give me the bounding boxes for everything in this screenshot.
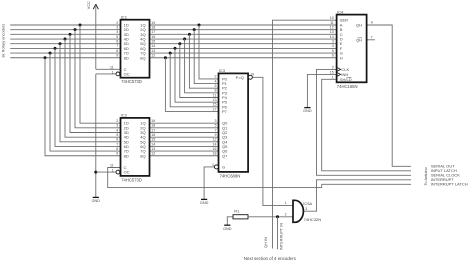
svg-text:13: 13 [151,147,155,151]
wire R1 to IC5A input 2 [248,216,293,218]
svg-text:11: 11 [213,93,217,97]
wire encoder line 3 to IC1 pin 4 (1D..8D) [10,33,120,35]
latch IC1 74HC573D [110,14,155,83]
node junction output line 5 [178,42,181,45]
wire IC4 pin 2 CLK to SERIAL CLOCK rail [317,69,412,175]
wire encoder line 4 drop to IC2 pin 5 [65,39,121,137]
svg-text:GND: GND [223,227,232,231]
wire IC2 output 6Q to IC3 Q5 [150,145,219,147]
svg-text:7: 7 [116,142,118,146]
svg-text:8x Rotary encoders: 8x Rotary encoders [1,24,6,58]
wire IC2 output 8Q to IC3 Q7 [150,155,219,157]
wire drop output 3Q to IC3 P2 [189,34,218,88]
shift register IC4 74HC165N [330,10,373,89]
svg-text:3: 3 [305,207,307,211]
svg-text:14: 14 [213,142,217,146]
svg-text:3: 3 [116,25,118,29]
svg-text:IC1: IC1 [121,14,128,19]
svg-text:G: G [222,164,225,169]
wire IC4 QH-bar (pin 7) stub [367,39,375,41]
wire drop output 8Q to IC3 P7 [165,58,218,112]
wire IC1 pin 1 (OC) to ground rail [96,73,116,75]
wire INTERRUPT IN drop [277,217,279,249]
svg-text:2: 2 [332,65,334,69]
wire IC2 output 5Q to IC3 Q4 [150,141,219,143]
svg-text:1: 1 [332,75,334,79]
svg-text:18: 18 [151,25,155,29]
svg-text:To Arduino: To Arduino [423,167,428,185]
ground GND4 [303,108,312,114]
wire junction to IC2 pin 1 (OC) [96,171,116,173]
latch IC2 74HC573D [110,113,155,183]
svg-text:11: 11 [110,65,114,69]
svg-text:4: 4 [332,44,334,48]
node junction output line 3 [188,33,191,36]
node junction encoder line 1 [79,24,82,27]
svg-text:Next section of 4 encoders: Next section of 4 encoders [244,256,297,261]
svg-text:6: 6 [116,40,118,44]
wire IC2 output 4Q to IC3 Q3 [150,136,219,138]
svg-text:14: 14 [330,35,334,39]
svg-text:8: 8 [116,147,118,151]
wire IC1 output 7Q to IC4 input G [150,52,337,54]
svg-text:8D: 8D [124,153,129,158]
wire IC5A output to INTERRUPT rail [303,180,411,211]
wire encoder line 2 to IC1 pin 3 (1D..8D) [10,29,120,31]
node junction INTERRUPT IN [276,215,279,218]
wire drop output 6Q to IC3 P5 [175,48,219,102]
svg-text:8: 8 [116,49,118,53]
svg-text:2: 2 [116,21,118,25]
wire IC3 P=Q output to IC5A input 1 [252,77,293,205]
wire encoder line 6 drop to IC2 pin 7 [55,48,121,146]
node junction OC rail / IC2 OC [94,171,97,174]
svg-text:12: 12 [151,54,155,58]
wire IC4 SER input from QH IN [273,20,337,248]
svg-text:4: 4 [116,30,118,34]
svg-text:P7: P7 [222,109,228,114]
svg-text:7: 7 [371,35,373,39]
svg-text:74HC165N: 74HC165N [337,84,358,89]
svg-text:17: 17 [151,128,155,132]
svg-text:8Q: 8Q [140,55,145,60]
svg-text:10: 10 [330,16,334,20]
svg-text:VCC: VCC [87,1,91,9]
node junction encoder line 6 [54,47,57,50]
wire encoder line 2 drop to IC2 pin 3 [75,30,121,128]
svg-text:8: 8 [215,89,217,93]
wire IC2 output 3Q to IC3 Q2 [150,132,219,134]
wire IC2 pin 11 (C) to INTERRUPT LATCH rail [108,168,322,188]
wire IC1 output 2Q to IC4 input B [150,29,337,31]
wire IC3 pin 1 (G) to ground [204,167,214,200]
svg-text:R1: R1 [234,208,240,213]
svg-text:74HC32N: 74HC32N [304,217,322,222]
svg-text:3: 3 [215,119,217,123]
wire drop output 4Q to IC3 P3 [185,39,219,93]
node junction output line 7 [169,52,172,55]
svg-text:1: 1 [212,163,214,167]
wire IC1 output 3Q to IC4 input C [150,33,337,35]
svg-text:8Q: 8Q [140,153,145,158]
svg-text:13: 13 [151,49,155,53]
resistor R1 [233,208,248,219]
svg-text:6: 6 [116,138,118,142]
svg-text:74HC688N: 74HC688N [220,174,241,179]
svg-text:7: 7 [116,44,118,48]
svg-text:15: 15 [213,103,217,107]
wire IC1 output 5Q to IC4 input E [150,43,337,45]
power VCC symbol [87,1,98,69]
wire encoder line 8 to IC1 pin 9 (1D..8D) [10,57,120,59]
svg-text:2: 2 [215,75,217,79]
comparator IC3 74HC688N [212,68,254,179]
svg-text:11: 11 [330,21,334,25]
ground GND2 [200,199,209,205]
node junction output line 6 [174,47,177,50]
svg-text:GND: GND [303,109,312,113]
svg-text:P=Q: P=Q [236,75,244,80]
svg-text:5: 5 [215,124,217,128]
svg-text:74HC573D: 74HC573D [121,79,142,84]
wire encoder line 7 drop to IC2 pin 8 [50,53,121,151]
wire IC2 output 2Q to IC3 Q1 [150,127,219,129]
wire drop output 7Q to IC3 P6 [170,53,218,107]
svg-text:1: 1 [285,201,287,205]
wire encoder line 1 drop to IC2 pin 2 [80,25,121,123]
svg-text:QH: QH [356,23,362,28]
node junction encoder line 3 [69,33,72,36]
svg-text:15: 15 [330,70,334,74]
svg-text:12: 12 [151,152,155,156]
svg-text:6: 6 [332,54,334,58]
wire encoder line 4 to IC1 pin 5 (1D..8D) [10,38,120,40]
node junction encoder line 5 [59,42,62,45]
svg-text:14: 14 [151,44,155,48]
gate IC5A 74HC32N [285,200,322,222]
node junction encoder line 4 [64,38,67,41]
node junction output line 2 [193,28,196,31]
wire drop output 2Q to IC3 P1 [194,30,218,84]
svg-text:8D: 8D [124,55,129,60]
wire encoder line 6 to IC1 pin 7 (1D..8D) [10,47,120,49]
svg-text:17: 17 [151,30,155,34]
svg-text:2: 2 [285,212,287,216]
svg-text:74HC573D: 74HC573D [121,177,142,182]
wire R1 left lead to ground [227,217,233,225]
wire drop output 5Q to IC3 P4 [180,44,219,98]
svg-text:18: 18 [213,152,217,156]
svg-text:5: 5 [332,49,334,53]
svg-text:9: 9 [116,152,118,156]
svg-text:Q7: Q7 [222,153,228,158]
wire encoder line 5 to IC1 pin 6 (1D..8D) [10,43,120,45]
svg-text:19: 19 [151,119,155,123]
wire encoder line 1 to IC1 pin 2 (1D..8D) [10,24,120,26]
svg-text:4: 4 [215,79,217,83]
ground GND1 [92,197,101,203]
svg-text:H: H [340,55,343,60]
svg-text:1: 1 [112,70,114,74]
wire IC1 output 6Q to IC4 input F [150,47,337,49]
svg-text:16: 16 [151,133,155,137]
wire IC2 output 7Q to IC3 Q6 [150,150,219,152]
wire IC1 output 1Q to IC4 input A [150,24,337,26]
svg-text:15: 15 [151,40,155,44]
ground GND3 [223,225,232,231]
svg-text:14: 14 [151,142,155,146]
svg-text:GND: GND [92,199,101,203]
svg-text:GND: GND [200,201,209,205]
svg-text:6: 6 [215,84,217,88]
wire IC2 output 1Q to IC3 Q0 [150,122,219,124]
node junction encoder line 2 [74,28,77,31]
wire INTERRUPT LATCH rail [322,183,411,185]
svg-text:17: 17 [213,107,217,111]
wire encoder line 7 to IC1 pin 8 (1D..8D) [10,52,120,54]
wire IC4 QH (pin 9) to SERIAL OUT rail [367,25,411,166]
wire drop output 1Q to IC3 P0 [199,25,219,79]
wire encoder line 5 drop to IC2 pin 6 [60,44,121,142]
wire IC1 output 8Q to IC4 input H [150,57,337,59]
svg-text:3: 3 [116,124,118,128]
svg-text:IC2: IC2 [121,113,128,118]
wire encoder line 8 drop to IC2 pin 9 [45,58,121,156]
node junction output line 1 [198,24,201,27]
svg-text:9: 9 [371,21,373,25]
svg-text:16: 16 [213,147,217,151]
svg-text:OC: OC [124,170,130,175]
wire IC1 output 4Q to IC4 input D [150,38,337,40]
svg-text:11: 11 [110,164,114,168]
svg-text:IC5A: IC5A [303,201,312,206]
svg-text:5: 5 [116,35,118,39]
svg-text:16: 16 [151,35,155,39]
svg-text:19: 19 [151,21,155,25]
svg-text:9: 9 [116,54,118,58]
svg-text:IC4: IC4 [337,10,344,15]
svg-text:1: 1 [112,169,114,173]
svg-text:13: 13 [330,30,334,34]
svg-text:12: 12 [330,25,334,29]
wire IC4 pin 15 INH to ground [307,74,336,107]
svg-text:2: 2 [116,119,118,123]
svg-text:9: 9 [215,133,217,137]
svg-text:5: 5 [116,133,118,137]
svg-text:IC3: IC3 [219,68,226,73]
svg-text:15: 15 [151,138,155,142]
svg-text:3: 3 [332,40,334,44]
svg-text:INTERRUPT IN: INTERRUPT IN [279,223,284,250]
wire IC4 pin 1 SH/LD to INPUT LATCH rail [322,79,411,171]
node junction output line 8 [164,56,167,59]
node junction output line 4 [183,38,186,41]
svg-text:13: 13 [213,98,217,102]
wire encoder line 3 drop to IC2 pin 4 [70,34,121,132]
svg-text:18: 18 [151,124,155,128]
node junction encoder line 8 [44,56,47,59]
wire VCC to IC1 pin 11 (C) [96,68,121,70]
svg-text:INTERRUPT LATCH: INTERRUPT LATCH [431,182,468,187]
wire vertical ground rail [95,74,97,197]
svg-text:QH IN: QH IN [263,237,268,248]
node junction encoder line 7 [49,52,52,55]
svg-text:OC: OC [124,71,130,76]
svg-text:4: 4 [116,128,118,132]
svg-text:7: 7 [215,128,217,132]
svg-text:12: 12 [213,138,217,142]
